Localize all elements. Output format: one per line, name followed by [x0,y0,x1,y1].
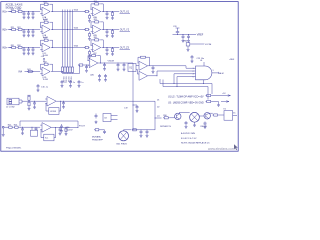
svg-text:4: 4 [193,74,194,76]
svg-text:2: 2 [193,71,194,73]
resistor R26 [14,125,20,129]
resistor R32 [17,45,23,49]
svg-text:DRIVER 5V: DRIVER 5V [160,126,172,128]
buzzer BZ1 [119,131,129,141]
resistor R31 [213,114,219,116]
svg-text:BZ1 PIEZO: BZ1 PIEZO [117,144,128,146]
ground C31 [95,121,98,124]
svg-text:.1u: .1u [81,82,84,84]
resistor R25 feedback [94,19,100,23]
wire summing rail to U2D [78,65,80,74]
capacitor C11 [23,12,26,16]
capacitor C16 [37,84,40,89]
svg-text:IN1+: IN1+ [2,12,8,14]
resistor R27 [65,127,67,132]
capacitor C41 [85,65,88,69]
resistor RB3 bus summing [66,66,68,74]
capacitor C44 [104,74,107,78]
op-amp U6 [42,123,51,133]
ground C25 [21,132,24,135]
capacitor C23 [32,30,35,34]
capacitor C19 [136,105,139,109]
resistor R35 feedback [94,37,100,41]
wire buzzer to route [152,129,155,131]
resistor R21 [11,27,17,31]
capacitor C23 [191,55,194,60]
wire U6 output [51,126,78,128]
resistor R34 [84,46,90,48]
resistor R28 [94,129,100,131]
capacitor C13 [32,12,35,16]
wire row 2 to bus [51,29,85,31]
resistor R12 [17,9,23,13]
capacitor C34 [146,130,149,134]
resistor R11 [11,9,17,13]
wire cluster2 [190,43,204,45]
box U5 network [49,108,59,115]
resistor R22 [17,27,23,31]
svg-text:R13: R13 [43,2,46,4]
resistor R55 feedback [91,55,97,57]
power symbol +5V arrow [43,58,45,62]
wire row 3 filter segment [23,47,40,49]
wire net FB1 branch to gate pin4 [174,74,196,84]
box bottom network [31,130,38,136]
wire input row 1 [8,11,12,13]
wire annotation line 1 arrow [212,95,230,97]
svg-text:V3A: V3A [74,45,79,48]
svg-text:R32: R32 [17,45,20,47]
wire R17 stub [89,13,91,16]
wire U1C feedback loop [41,40,44,45]
wire X2 stubs [111,115,118,117]
wire row 3 to bus [51,47,85,49]
resistor R15 feedback [94,1,100,5]
wire U2D feedback loop [88,56,91,61]
resistor R29 [132,129,138,131]
capacitor C14 [106,12,109,16]
resistor R30 [163,115,169,119]
ground C10 [123,68,126,71]
svg-text:U4: U4 [200,60,202,62]
resistor RB1 bus summing [61,66,63,74]
resistor R20 pullup [28,95,30,101]
ground C33 [32,52,35,55]
wire input row 2 [8,29,12,31]
ground R60 [187,48,190,51]
svg-text:10u/25V: 10u/25V [66,130,74,132]
wire R37 stub [89,49,91,52]
ground C19 [136,109,139,112]
capacitor C52 decoupling [69,80,72,84]
capacitor C21 [182,35,185,39]
svg-text:B 0.5V 2.4-7.5V: B 0.5V 2.4-7.5V [181,138,197,140]
wire shunt stub [133,104,137,106]
op-amp U2A [91,7,101,19]
resistor R42 feedback [43,62,49,66]
ground C31 [23,52,26,55]
wire R28 to C32 [100,129,105,131]
transistor Q2 [204,113,210,119]
resistor R25 [8,125,14,129]
ground C21 [182,39,185,42]
wire branch to driver [155,117,162,119]
wire R17 loop [138,57,141,63]
ground R16 [111,17,114,20]
op-amp U2D [88,58,98,67]
svg-text:R33: R33 [43,38,46,40]
capacitor C53 decoupling [78,80,81,84]
capacitor C30 [60,124,63,129]
wire annotation line 2 arrow [221,101,228,103]
wire row 2 filter segment [23,29,40,31]
wire summing node [84,64,89,66]
ground R27 [65,132,68,135]
capacitor C42 [103,63,106,67]
schematic sheet border [1,2,238,152]
wire net CMP1 to gate pin1 [153,66,196,68]
ground C41 [85,69,88,72]
resistor R21 divider [28,101,30,107]
svg-text:VSUM: VSUM [108,60,114,62]
resistor RB2 bus summing [64,66,66,74]
svg-text:R42: R42 [43,62,46,64]
ground C11 [23,16,26,19]
wire vertical bus lines [63,10,73,67]
wire Q2 to R31 [209,112,213,114]
wire buzzer node [133,129,152,131]
svg-text:PSpice MODEL: PSpice MODEL [6,148,22,150]
svg-text:IN2+: IN2+ [2,30,8,32]
wire J1 pins [19,99,22,101]
resistor R71 [206,100,212,102]
svg-text:A 5V/DIV 2MS: A 5V/DIV 2MS [181,132,196,135]
wire R30 to Q1 [170,117,175,119]
wire U1B feedback loop [41,22,44,27]
svg-text:PKM22EPP: PKM22EPP [92,139,104,141]
wire U6 feedback box [41,130,44,138]
ground C35 [185,125,188,128]
svg-text:OUT_X1: OUT_X1 [120,10,130,13]
wire U2B feedback loop [91,22,94,27]
ground R36 [111,53,114,56]
svg-text:www.elecfans.com: www.elecfans.com [208,147,235,151]
ground C32 [27,52,30,55]
capacitor C26 [35,127,38,130]
ground C12 [27,16,30,19]
node +5V stub R20 [27,94,30,96]
ground C36 [204,126,207,129]
capacitor C36 [204,122,207,126]
svg-text:RELAY: RELAY [201,125,208,128]
svg-text:V1A: V1A [74,9,79,12]
wire J1 to U5 [22,100,46,102]
ground C16 [37,89,40,92]
wire bus bottom rail [63,73,80,75]
wire T2 to Q2 [199,115,204,117]
capacitor C31 [95,114,98,119]
ground C23 [191,60,194,63]
svg-text:VCOM: VCOM [205,44,212,46]
svg-text:R30: R30 [163,115,166,117]
svg-text:R11: R11 [11,9,14,11]
node shunt junction [132,104,135,107]
svg-text:OUT_Z3: OUT_Z3 [120,46,130,49]
ground C24 [106,34,109,37]
wire U2C feedback loop [91,40,94,45]
resistor R60 vertical [186,43,190,46]
svg-text:ACCEL 3-AXIS: ACCEL 3-AXIS [6,4,23,7]
ground R37 [88,55,91,58]
resistor R33 feedback [43,38,49,42]
op-amp U5 [47,96,56,106]
wire U2A feedback loop [91,4,94,9]
svg-text:.1u: .1u [64,82,67,84]
wire row 1 output [102,11,120,13]
capacitor C11 [152,66,155,70]
capacitor C35 [185,121,188,125]
wire annotation line 2 stub [212,101,219,103]
ground C22 [27,34,30,37]
svg-text:U1,U2 : TL084 OP-AMP VCC=+5V: U1,U2 : TL084 OP-AMP VCC=+5V [168,95,204,98]
resistor R14 [84,10,90,12]
ground C43 [98,78,101,81]
op-amp U2C [91,43,101,55]
connector J1 [7,98,19,105]
capacitor C32 [27,48,30,52]
op-amp U3A comparator [139,61,148,70]
wire X1 to comparators [136,65,139,67]
svg-text:OUT_Y2: OUT_Y2 [120,28,130,31]
resistor R26 [111,30,113,35]
svg-text:VREF: VREF [197,34,204,37]
resistor R54 [78,64,84,66]
op-amp U2B [91,25,101,37]
capacitor C43 [98,74,101,78]
ground C17 [33,106,36,109]
ground R27 [88,37,91,40]
resistor R41 [27,69,33,73]
wire U5 output [56,100,67,102]
svg-text:+: + [42,49,43,51]
wire K1 output [233,114,237,116]
relay K1 box [224,111,233,121]
op-amp U1B [40,25,50,39]
ground C52 [69,84,72,87]
ground C11 [152,70,155,73]
resistor R16 [111,12,113,17]
wire row 1 to bus [51,11,85,13]
svg-text:+: + [93,49,94,51]
capacitor C51 decoupling [61,80,64,84]
wire R27 stub [89,31,91,34]
svg-text:R47 1k: R47 1k [67,77,69,83]
svg-text:R21: R21 [11,27,14,29]
capacitor C21 [23,30,26,34]
capacitor C32 [103,130,106,134]
wire T2 bottom stub [194,122,196,123]
svg-text:LF398: LF398 [50,111,57,113]
ground C23 [32,34,35,37]
resistor RB4 bus summing [69,66,71,74]
wire net FB2 branch to gate pin5 [177,77,196,87]
wire VSUM vertical route [113,63,133,130]
op-amp U1D [40,67,50,81]
wire input row 3 [8,47,12,49]
capacitor C10 [123,63,126,68]
svg-text:+5V: +5V [41,56,45,58]
svg-text:R25: R25 [94,19,97,21]
capacitor C20 series top [177,33,179,35]
transformer T2 [190,112,200,122]
ground R26 [111,35,114,38]
svg-text:R15: R15 [94,1,97,3]
ground C27 [59,132,62,135]
resistor R17 comparator feedback [141,56,146,58]
wire terminal to R25 [4,126,8,128]
wire row 3 output [102,47,120,49]
wire box stub [31,127,33,130]
capacitor C34 [106,48,109,52]
svg-text:R25: R25 [8,125,11,127]
transistor Q1 [175,113,181,119]
svg-text:3: 3 [213,70,214,72]
capacitor C33 [32,48,35,52]
ground C44 [104,78,107,81]
wire net FB1 staircase [160,79,212,94]
wire terminal down [2,128,4,133]
resistor R37 to ground [88,51,90,56]
resistor R36 [111,48,113,53]
wire row 4 to bus rail [51,71,63,73]
resistor R31 [11,45,17,49]
wire gate bottom stub [203,80,205,83]
ground C9 [117,68,120,71]
wire net FB2 staircase [163,80,208,100]
capacitor C27 [59,127,62,131]
svg-text:IN3+: IN3+ [2,48,8,50]
capacitor C22 [27,30,30,34]
capacitor C9 [117,63,120,68]
ground C30 [60,129,63,132]
ground C34 [106,52,109,55]
resistor RB5 bus summing [71,66,73,74]
gate U4A AND [196,66,212,80]
wire U3A output [148,65,153,67]
wire row 4 input [25,71,41,73]
wire row 2 output [102,29,120,31]
resistor R70 [206,94,212,96]
wire bottom row [20,126,41,128]
op-amp U1A [40,7,50,21]
svg-text:D2: D2 [157,106,159,108]
box X2 resonator [103,114,111,122]
wire U4A output [212,72,219,74]
wire U4A top power stub [203,62,205,66]
ground C53 [78,84,81,87]
resistor R27 to ground [88,33,90,38]
wire U5 feedback to box [46,103,49,111]
node input terminal T1 [2,126,4,128]
ground terminal [2,133,5,136]
svg-text:R31: R31 [11,45,14,47]
wire R31 to K1 [219,114,224,116]
capacitor C22 [187,35,190,39]
resistor R17 to ground [88,15,90,20]
svg-text:+REF: +REF [229,59,235,61]
op-amp U3B comparator [139,71,148,80]
ground C22 [187,39,190,42]
capacitor C24 [106,30,109,34]
svg-text:+: + [93,13,94,15]
svg-text:+: + [90,65,91,67]
svg-text:D1: D1 [157,99,159,101]
resistor R24 [84,28,90,30]
wire BZ1 top [123,130,125,131]
capacitor C18 [62,101,65,105]
ground R21 [28,107,31,110]
svg-text:TL084: TL084 [43,79,48,81]
wire Q1 collector to T1 [178,112,180,113]
svg-text:R22: R22 [17,27,20,29]
svg-text:ALM: ALM [219,72,224,75]
crystal X1 box [128,64,136,72]
svg-text:.1u: .1u [72,82,75,84]
capacitor C31 [23,48,26,52]
ground T2 [193,124,196,127]
svg-text:V2A: V2A [74,27,79,30]
svg-text:+: + [42,31,43,33]
ground C21 [23,34,26,37]
wire U1A feedback loop [41,4,44,9]
svg-text:R41: R41 [27,69,30,71]
wire output end tick [218,72,220,74]
cursor arrow icon [234,144,238,150]
box U6 network [44,134,54,141]
ground C34 [146,134,149,137]
resistor R13 feedback [43,2,49,6]
wire U1D feedback loop [41,64,44,69]
capacitor C17 [33,101,36,105]
svg-text:U2D: U2D [90,75,95,77]
ground C33 [140,134,143,137]
capacitor C25 [21,127,24,131]
svg-text:5: 5 [193,76,194,78]
svg-text:U3 : LM393 COMP. VEE=-5V GND: U3 : LM393 COMP. VEE=-5V GND [168,102,204,104]
wire U2D output [98,62,113,64]
svg-text:C16 .1u: C16 .1u [41,87,48,89]
svg-text:R35: R35 [94,37,97,39]
ground annotation [217,104,220,107]
svg-text:+: + [93,31,94,33]
ground C18 [62,105,65,108]
ground C42 [103,67,106,70]
op-amp U1C [40,43,50,57]
svg-text:J1 CON2: J1 CON2 [6,107,15,109]
wire feedback top loop [20,121,78,127]
wire U5 long route [67,101,155,130]
wire VREF rail [173,34,197,36]
wire net CMP2 to gate pin2 [157,71,196,76]
capacitor C33 [140,130,143,134]
svg-text:1: 1 [193,68,194,70]
svg-text:FOUT: FOUT [79,125,86,127]
wire U3B output [148,75,157,77]
svg-text:+: + [42,13,43,15]
svg-text:R26: R26 [14,125,17,127]
svg-text:R23: R23 [43,20,46,22]
wire row 1 filter segment [23,11,40,13]
